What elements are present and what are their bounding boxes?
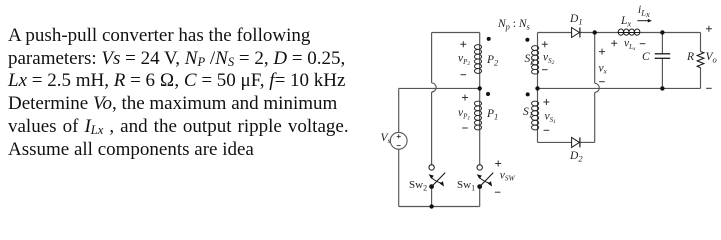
label S2 <box>525 53 536 67</box>
label Lx <box>620 15 631 29</box>
wire: Sw1 lower lead <box>479 189 481 207</box>
wire: output top right corner down <box>700 33 702 52</box>
label + Vo - polarity <box>706 26 712 89</box>
node: bottom rail junction under Sw2 <box>429 204 433 208</box>
label Vo <box>706 51 717 65</box>
wire: Vs top lead up to center-tap rail <box>398 88 400 132</box>
label P2 <box>486 54 499 68</box>
voltage source Vs <box>390 132 407 149</box>
wire: P1 bottom lead to Sw1 <box>479 130 481 164</box>
svg-text:P1: P1 <box>486 108 498 122</box>
svg-text:D2: D2 <box>569 150 583 164</box>
label Np : Ns <box>497 18 531 32</box>
wire: S2 top stub <box>537 33 539 46</box>
svg-text:iLx: iLx <box>638 4 650 19</box>
label + vP1 - <box>458 95 470 129</box>
wire: primary center-tap rail <box>399 87 480 89</box>
svg-text:Np : Ns: Np : Ns <box>497 18 531 32</box>
svg-text:Vs: Vs <box>381 132 391 145</box>
wire: S1 to D2 anode <box>538 141 572 143</box>
label iLx with arrow <box>637 4 651 23</box>
wire: D1 cathode to node vx <box>580 32 618 34</box>
transformer secondary winding S2 <box>532 46 539 75</box>
svg-text:Vo: Vo <box>706 51 717 65</box>
svg-text:vP2: vP2 <box>458 53 470 68</box>
label C <box>642 51 650 63</box>
node: secondary center tap junction <box>535 86 539 90</box>
label S1 <box>523 106 533 120</box>
wire: bottom rail <box>399 206 480 208</box>
wire: P2-P1 center tap stubs <box>479 74 481 102</box>
svg-text:vLx: vLx <box>624 38 636 53</box>
svg-text:vS1: vS1 <box>545 111 557 126</box>
wire: vx riser with hop over ground rail <box>595 33 600 143</box>
svg-text:Lx: Lx <box>620 15 631 29</box>
node: Lx output to C junction <box>660 30 664 34</box>
diode D1 <box>572 28 580 38</box>
wire: output ground rail <box>538 87 701 89</box>
label D2 <box>569 150 583 164</box>
label D1 <box>569 13 583 27</box>
svg-text:vSW: vSW <box>500 170 516 183</box>
svg-text:vP1: vP1 <box>458 107 470 122</box>
problem statement text <box>8 25 368 161</box>
capacitor C top lead <box>661 33 663 54</box>
wire: R bottom lead <box>700 68 702 89</box>
node vx junction <box>593 30 597 34</box>
label + vP2 - <box>458 41 470 74</box>
wire: Vs bottom lead down to bottom rail <box>398 149 400 206</box>
label + vS1 - <box>543 99 556 130</box>
svg-text:D1: D1 <box>569 13 583 27</box>
label Vs <box>381 132 391 145</box>
label + vS2 - <box>542 41 555 69</box>
wire: S1 bottom lead <box>537 131 539 143</box>
label + vSW - <box>495 161 516 193</box>
svg-text:C: C <box>642 51 650 63</box>
node: primary center tap junction <box>478 86 482 90</box>
transformer secondary winding S1 <box>532 101 539 131</box>
wire: primary top rail <box>432 32 480 34</box>
diode D2 <box>572 137 580 147</box>
wire: D2 cathode to vx riser <box>580 141 595 143</box>
wire: Lx to output node <box>640 32 701 34</box>
capacitor C bottom lead <box>661 58 663 88</box>
transformer primary winding P1 <box>474 101 481 130</box>
resistor R <box>697 52 704 68</box>
label Sw1 <box>457 179 475 193</box>
polarity dot P1 <box>486 92 490 96</box>
label + vLx - <box>611 38 645 53</box>
switch Sw2 <box>429 165 446 189</box>
switch Sw1 <box>477 165 494 189</box>
label R <box>686 51 694 63</box>
label Sw2 <box>409 179 427 193</box>
wire: Sw2 upper lead with hop over center-tap rail <box>432 33 437 165</box>
svg-text:Sw2: Sw2 <box>409 179 427 193</box>
polarity dot S2 <box>525 38 529 42</box>
svg-text:Sw1: Sw1 <box>457 179 475 193</box>
svg-text:P2: P2 <box>486 54 499 68</box>
inductor Lx <box>618 29 641 35</box>
svg-text:vx: vx <box>599 63 608 76</box>
polarity dot P2 <box>487 37 491 41</box>
transformer primary winding P2 <box>474 45 481 74</box>
wire: secondary center tap stubs <box>537 74 539 101</box>
wire: P2 top stub <box>479 33 481 45</box>
wire: Sw2 lower lead <box>431 189 433 207</box>
label P1 <box>486 108 498 122</box>
wire: secondary top rail to D1 anode <box>538 32 572 34</box>
svg-text:R: R <box>686 51 694 63</box>
capacitor C plates <box>655 54 671 59</box>
svg-text:vS2: vS2 <box>543 52 555 67</box>
label + vx - <box>599 49 608 82</box>
node: C bottom junction <box>660 86 664 90</box>
polarity dot S1 <box>526 92 530 96</box>
